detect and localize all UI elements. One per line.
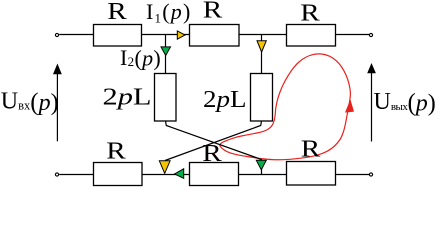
wire top rail between R1 and R2 (141, 34, 190, 36)
resistor R1 top-left (94, 25, 142, 47)
wire bottom rail right (335, 174, 369, 176)
current arrow green left on bottom wire (175, 169, 184, 179)
wire lead from L1 crossing to bottom node2 (166, 121, 262, 175)
svg-text:2pL: 2pL (203, 87, 247, 113)
current arrow green down at bottom node2 (256, 160, 266, 170)
wire node1 vertical (165, 35, 167, 74)
wire top rail between R2 and R3 (239, 34, 287, 36)
terminal output top (369, 33, 372, 36)
wire bottom rail between R5 and R6 (239, 174, 287, 176)
svg-text:I1(p): I1(p) (146, 0, 192, 26)
red contour loop (220, 54, 351, 160)
terminal input top (55, 33, 58, 36)
terminal output bottom (369, 173, 372, 176)
input voltage arrow Uvx (56, 72, 58, 141)
current arrow yellow down at bottom node1 (159, 161, 170, 174)
svg-text:R: R (202, 141, 222, 167)
svg-text:I2(p): I2(p) (120, 45, 161, 71)
wire top rail right (336, 34, 370, 36)
svg-text:R: R (301, 137, 321, 163)
svg-text:2pL: 2pL (103, 84, 152, 110)
svg-text:Uвх(p): Uвх(p) (1, 89, 59, 117)
resistor R4 bottom-left (94, 163, 143, 186)
output voltage arrow Uvyx (371, 72, 373, 142)
wire lead from L2 crossing to bottom node1 (165, 121, 262, 161)
wire bottom rail between R4 and R5 (142, 174, 190, 176)
wire top rail left (59, 34, 94, 36)
current arrow I1 yellow (177, 31, 185, 39)
svg-text:R: R (107, 0, 127, 25)
resistor R6 bottom-right (287, 162, 336, 186)
svg-text:R: R (300, 1, 320, 27)
inductor L1 2pL (155, 74, 177, 122)
wire bottom rail left (59, 174, 93, 176)
terminal input bottom (55, 173, 58, 176)
inductor L2 2pL (251, 74, 273, 122)
current arrow yellow down at node2 (257, 41, 266, 52)
resistor R5 bottom-middle (190, 163, 239, 186)
wire node2 vertical (261, 35, 263, 74)
svg-text:R: R (106, 139, 126, 165)
red loop direction arrowhead (345, 99, 354, 112)
svg-text:R: R (203, 0, 223, 24)
resistor R3 top-right (287, 25, 336, 47)
resistor R2 top-middle (190, 25, 240, 47)
current arrow I2 green (161, 47, 171, 56)
